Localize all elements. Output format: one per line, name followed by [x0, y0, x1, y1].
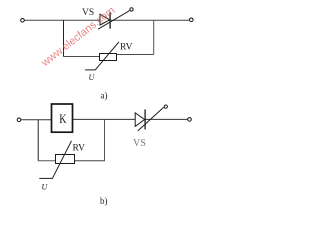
svg-text:RV: RV — [120, 43, 133, 53]
varistor RV (a) — [85, 42, 119, 70]
wire: right riser up to main line (b) — [104, 119, 106, 160]
wire: branch to RV left (a) — [63, 56, 100, 58]
svg-text:VS: VS — [82, 8, 94, 18]
wire: left drop from junction (b) — [37, 120, 39, 161]
wire: thyristor cathode to right terminal (b) — [145, 118, 188, 120]
wire: thyristor cathode to right terminal (a) — [110, 19, 189, 21]
svg-text:U: U — [42, 183, 49, 192]
terminal right (a) — [190, 18, 194, 22]
wire: relay K to thyristor anode (b) — [73, 118, 136, 120]
wire: branch to RV left (b) — [38, 160, 56, 162]
wire: left terminal to relay K (b) — [21, 119, 52, 121]
svg-text:www.elecfans.com: www.elecfans.com — [39, 4, 118, 69]
svg-text:VS: VS — [133, 138, 146, 149]
svg-text:RV: RV — [73, 144, 86, 154]
terminal left (a) — [21, 19, 25, 23]
svg-text:a): a) — [101, 91, 108, 101]
terminal left (b) — [17, 118, 21, 122]
relay coil K (b) — [52, 104, 73, 132]
svg-text:K: K — [59, 112, 66, 126]
wire: left terminal to thyristor anode (a) — [25, 19, 101, 21]
wire: RV right to right riser (b) — [75, 160, 105, 162]
thyristor VS (a) — [98, 8, 133, 30]
varistor RV (b) — [39, 141, 74, 179]
svg-text:b): b) — [100, 196, 108, 206]
terminal right (b) — [188, 118, 192, 122]
wire: right riser up to main line (a) — [153, 20, 155, 54]
thyristor VS (b) — [135, 105, 167, 131]
svg-text:U: U — [89, 73, 96, 82]
wire: RV right to right riser (a) — [117, 54, 154, 56]
wire: left drop from junction (a) — [63, 20, 65, 56]
